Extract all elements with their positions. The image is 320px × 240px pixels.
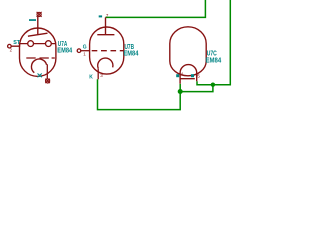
junction D2 [178, 89, 183, 94]
tube U7A left pin [8, 44, 20, 48]
svg-text:G: G [83, 45, 87, 51]
tube U7B left pin (grid) [77, 49, 89, 53]
tube U7A dashed grid [26, 57, 55, 59]
wire D2 up to U7C left pin [179, 84, 181, 92]
tube U7C display anode dome [180, 65, 197, 84]
tube U7B dashed grid [92, 50, 124, 52]
tube U7B envelope [90, 27, 124, 74]
svg-text:EM84: EM84 [206, 55, 222, 64]
wire top edge down right side [197, 0, 230, 85]
svg-text:ST: ST [13, 40, 21, 46]
tube U7A envelope [20, 28, 56, 76]
tube U7B cathode lead [97, 68, 99, 79]
tube U7A cathode pin name X (teal) [38, 74, 42, 78]
tube U7A bottom pin marker (unconnected circle with X) [45, 79, 50, 83]
wire plate U7B to top edge [106, 0, 206, 17]
svg-text:1: 1 [83, 52, 86, 57]
tube U7C envelope [170, 27, 206, 76]
svg-text:5: 5 [197, 74, 200, 79]
tube U7A top pin marker (unconnected circle with X) [37, 12, 42, 17]
svg-text:2: 2 [10, 47, 13, 52]
tube U7C right pin name (teal) [191, 74, 194, 77]
tube U7A cathode arc [31, 59, 46, 73]
tube U7A cathode lead [46, 64, 48, 79]
tube U7A plate [28, 17, 48, 37]
tube U7B cathode arc [98, 58, 113, 68]
wire jog D1 to D2 [180, 85, 213, 92]
svg-text:EM84: EM84 [57, 45, 72, 54]
tube U7B top pin name A (teal) [99, 15, 102, 17]
svg-text:K: K [89, 75, 93, 81]
tube U7A grid line with circles [20, 41, 56, 47]
junction D1 [211, 83, 215, 87]
tube U7B plate [97, 17, 114, 34]
tube U7A top pin name (teal) [29, 19, 36, 21]
wire D2 down and left to U7B cathode [98, 79, 181, 109]
svg-text:EM84: EM84 [124, 48, 139, 57]
tube U7C left pin name (teal) [176, 74, 179, 77]
